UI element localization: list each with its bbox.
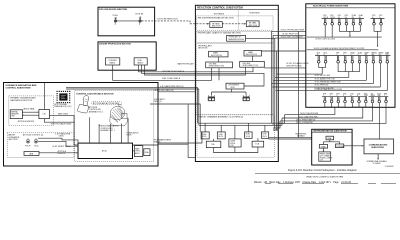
squib valve B	[135, 14, 144, 25]
svg-text:RCS: RCS	[372, 15, 375, 17]
svg-text:TEMP: TEMP	[365, 52, 369, 54]
svg-text:ASSEMBLY NO. 1: ASSEMBLY NO. 1	[89, 110, 103, 113]
svg-text:28 VDC PROPELLANT TEMP: 28 VDC PROPELLANT TEMP	[281, 29, 305, 32]
svg-text:28 VDC SE'S D-C BUS: 28 VDC SE'S D-C BUS	[315, 75, 331, 77]
wire APS fuel to RCS fuel interconnect	[139, 65, 254, 72]
jet driver box 3	[245, 132, 253, 138]
wire top feed to LGC	[43, 83, 45, 110]
PGNS dashed section	[9, 96, 54, 126]
reaction control subsystem box	[195, 5, 278, 161]
svg-text:SYSTEM B: SYSTEM B	[249, 12, 260, 14]
AGS knob switch A	[23, 134, 43, 148]
instrumentation wiring	[323, 140, 364, 152]
svg-text:SCEA: SCEA	[321, 145, 327, 148]
jet driver box 1	[201, 132, 209, 139]
svg-text:RCS: RCS	[330, 15, 333, 17]
svg-text:LTS: LTS	[320, 159, 323, 161]
main shutoff valves box B	[244, 50, 261, 56]
DSKY computer icon	[54, 91, 72, 109]
wire shutoff to interconnect A	[218, 56, 252, 62]
svg-text:C-300LM4-97: C-300LM4-97	[385, 166, 394, 168]
wire IMU-LGC	[22, 108, 39, 116]
heaters box center	[229, 139, 241, 147]
figure caption	[254, 169, 400, 184]
svg-text:RCS: RCS	[324, 52, 327, 54]
ACA hand controller icon	[77, 95, 103, 113]
svg-text:28 VDC PRESS IND: 28 VDC PRESS IND	[315, 85, 330, 87]
svg-text:CMDS: CMDS	[59, 136, 65, 138]
svg-text:28 VDC INST SIG SENSOR: 28 VDC INST SIG SENSOR	[281, 37, 304, 39]
SCEA box	[319, 145, 327, 149]
svg-text:1/4: 1/4	[338, 17, 340, 19]
instrumentation subsystem box	[312, 129, 352, 165]
svg-text:RCS: RCS	[323, 15, 326, 17]
svg-text:THRUST CHAMBER ASSEMBLY CLUSTE: THRUST CHAMBER ASSEMBLY CLUSTERS (4)	[198, 115, 243, 118]
bus 28VDC CDR	[307, 37, 382, 40]
svg-text:TO MSFN: TO MSFN	[373, 163, 382, 165]
wire hardover cmds pair crossing to RCS	[66, 85, 199, 125]
TCA bus lines	[199, 123, 285, 125]
node temp pressure signals	[295, 133, 307, 137]
ATCA box	[78, 143, 133, 158]
svg-text:28 VDC PROP QTY: 28 VDC PROP QTY	[282, 34, 298, 36]
wire LGC down throttle cmds	[18, 119, 75, 126]
svg-text:MAIN: MAIN	[248, 51, 253, 54]
svg-text:PCMTEA: PCMTEA	[336, 145, 344, 148]
thruster cluster symbol B	[243, 95, 250, 101]
CB row 2 breakers	[317, 51, 389, 63]
svg-text:ROLL: ROLL	[34, 145, 39, 147]
CB row 3 breakers	[323, 92, 387, 102]
svg-text:CMDS: CMDS	[126, 135, 132, 137]
svg-text:B: B	[357, 95, 358, 97]
PCMTEA box	[336, 144, 345, 148]
svg-text:TO RCS HE PRESS VLVS: TO RCS HE PRESS VLVS	[157, 19, 179, 21]
svg-text:ASSEMBLY NO. 1: ASSEMBLY NO. 1	[101, 129, 115, 132]
LGC box	[39, 110, 50, 119]
svg-text:AND VLVS: AND VLVS	[249, 24, 258, 27]
displays box	[319, 152, 333, 162]
TTCA thrust translation controller icon	[99, 105, 140, 137]
ERA box	[326, 136, 334, 140]
APS fuel tank box	[134, 58, 147, 65]
wire ATCA to RGA	[133, 150, 135, 152]
wires RCS to EPS connectors	[246, 29, 310, 138]
svg-text:GUIDANCE NAVIGATION AND: GUIDANCE NAVIGATION AND	[6, 84, 37, 87]
wire dashed helium B feed	[222, 23, 245, 25]
svg-text:ERRORS: ERRORS	[58, 153, 66, 155]
main shutoff valves box A	[209, 51, 228, 57]
helium tank box A	[210, 22, 223, 28]
AGS wires to ATCA	[38, 133, 78, 156]
svg-text:2/4: 2/4	[345, 17, 347, 19]
explosive devices subsystem box	[98, 7, 155, 36]
control electronics section dashed box	[75, 91, 154, 162]
wire APS propellant feed 2	[142, 65, 265, 86]
crossfeed valves box	[226, 83, 244, 89]
svg-text:ANGLE DATA: ANGLE DATA	[24, 108, 36, 111]
thruster cluster symbol A	[208, 95, 215, 101]
svg-text:3/4: 3/4	[352, 17, 354, 19]
svg-text:SECTION: SECTION	[198, 48, 208, 50]
ascent propulsion section box	[98, 42, 156, 70]
svg-text:SECTION: SECTION	[8, 139, 18, 141]
svg-text:MAIN: MAIN	[213, 52, 218, 55]
squib valve A	[113, 14, 119, 25]
svg-text:RCS: RCS	[317, 52, 320, 54]
svg-text:2: 2	[384, 95, 385, 97]
RGA label box	[134, 146, 142, 157]
RGA box	[144, 149, 150, 156]
CB row 1 breakers	[323, 14, 382, 25]
wire direct cmds to RCS	[150, 99, 200, 132]
wire EPS to comm	[378, 103, 380, 139]
CB row 2 bus	[315, 55, 391, 57]
svg-text:CONTROL ELECTRONICS SECTION: CONTROL ELECTRONICS SECTION	[76, 94, 114, 96]
communications subsystem box	[364, 139, 394, 154]
svg-text:REACTION CONTROL SUBSYSTEM: REACTION CONTROL SUBSYSTEM	[307, 176, 344, 179]
svg-text:CMDS (4): CMDS (4)	[154, 101, 162, 103]
svg-text:UNIT: UNIT	[11, 116, 15, 118]
svg-text:TANKS: TANKS	[109, 61, 116, 64]
svg-text:ATTITUDE AND ATTITUDE RATE: ATTITUDE AND ATTITUDE RATE	[93, 102, 120, 105]
svg-text:EXPLOSIVE DEVICES SUBSYSTEM: EXPLOSIVE DEVICES SUBSYSTEM	[99, 9, 127, 11]
svg-text:SIGNALS: SIGNALS	[297, 135, 305, 138]
wires controllers to ATCA	[90, 117, 128, 143]
wires interconnect to crossfeed	[212, 68, 247, 96]
CB row 1 bus	[322, 18, 385, 20]
svg-text:SYS B: SYS B	[330, 17, 334, 19]
APS oxidizer tank box	[106, 58, 120, 65]
svg-text:INTERCONNECT VLVS: INTERCONNECT VLVS	[209, 66, 224, 68]
svg-text:NAVIGATION SECTION: NAVIGATION SECTION	[10, 99, 33, 102]
wire APS oxidizer to RCS oxid interconnect	[113, 65, 212, 80]
guidance navigation and control subsystem box	[4, 83, 159, 167]
svg-text:28 VDC CDR'S D-C BUS: 28 VDC CDR'S D-C BUS	[316, 38, 336, 40]
svg-text:(16): (16)	[230, 145, 234, 147]
propellant quantity gaging dashed section	[196, 32, 273, 43]
svg-text:SYS B SE: SYS B SE	[135, 14, 144, 16]
AGS knob switch B	[34, 138, 39, 147]
jet driver box 4	[261, 132, 268, 138]
propellant section dashed box	[196, 44, 273, 115]
svg-text:ELECTRICAL POWER SUBSYSTEM: ELECTRICAL POWER SUBSYSTEM	[313, 5, 348, 8]
IMU box	[10, 110, 22, 119]
svg-text:OXIDIZER TO ASC FEED A: OXIDIZER TO ASC FEED A	[162, 70, 185, 73]
svg-text:RCS: RCS	[379, 15, 382, 17]
helium pressurization dashed section	[196, 16, 273, 30]
svg-text:4: 4	[358, 54, 359, 56]
system divider dashed	[237, 11, 239, 31]
bus interconnect	[307, 47, 378, 50]
CB row 1 collector	[325, 25, 381, 46]
svg-text:ENABLE: ENABLE	[154, 141, 162, 144]
propellant quantity measuring box	[227, 35, 246, 41]
svg-text:INST: INST	[364, 93, 368, 95]
svg-text:ASSY: ASSY	[135, 152, 141, 155]
svg-text:SYS A: SYS A	[113, 14, 119, 17]
wire valve A to valve B	[117, 20, 139, 22]
wire ATCA jet drivers to RCS	[133, 105, 203, 158]
CB row 2 drops and buses	[272, 63, 388, 91]
svg-text:SYSTEM A: SYSTEM A	[214, 13, 225, 16]
svg-text:B: B	[379, 17, 380, 19]
svg-text:MAIN PROPELLANT: MAIN PROPELLANT	[178, 62, 195, 65]
svg-text:ASCENT PROPULSION SECTION: ASCENT PROPULSION SECTION	[99, 43, 131, 46]
svg-text:THROTTLE VALVE CMDS: THROTTLE VALVE CMDS	[51, 123, 73, 126]
AEA box	[24, 152, 39, 156]
svg-text:PRESS TEMP: PRESS TEMP	[320, 153, 330, 155]
svg-text:FUEL TO ASC FEED B: FUEL TO ASC FEED B	[162, 77, 181, 80]
svg-text:SENS: SENS	[371, 95, 375, 97]
wire jet on-off cmds to RCS	[154, 89, 196, 92]
svg-text:ATTITUDE CONTROL (4): ATTITUDE CONTROL (4)	[23, 134, 43, 137]
svg-text:INTERCONNECT VLVS: INTERCONNECT VLVS	[243, 65, 258, 67]
jet driver box 2	[217, 132, 225, 139]
svg-text:4-JET HARDOVER CMDS (4): 4-JET HARDOVER CMDS (4)	[160, 85, 184, 88]
TCA box B	[252, 141, 264, 147]
svg-text:ATTITUDE ERRORS: ATTITUDE ERRORS	[18, 120, 35, 123]
oxidizer interconnect valves box A	[206, 62, 233, 68]
EPS to TCA feed wires	[273, 103, 386, 130]
CB row 3 bus	[322, 96, 388, 98]
svg-text:AND VLVS: AND VLVS	[212, 25, 221, 28]
thrust chamber assembly dashed section	[196, 115, 274, 157]
svg-text:(4 JET DIRECT CMDS): (4 JET DIRECT CMDS)	[52, 146, 71, 148]
abort guidance section dashed box	[7, 133, 74, 158]
svg-text:B: B	[324, 54, 325, 56]
wire TCA outputs to instrumentation	[269, 138, 312, 139]
svg-text:ON AND OFF CMDS (16): ON AND OFF CMDS (16)	[154, 89, 174, 92]
dashed capsule label	[92, 101, 122, 105]
svg-text:Figure 2-9-8. Reaction Contro: Figure 2-9-8. Reaction Control Subsystem…	[288, 169, 357, 172]
svg-text:VLV: VLV	[379, 54, 382, 56]
svg-text:SHUTOFF VLVS: SHUTOFF VLVS	[211, 55, 222, 57]
svg-text:PITCH: PITCH	[25, 145, 31, 147]
svg-text:28 VDC PRESS/TEMP IND: 28 VDC PRESS/TEMP IND	[296, 119, 316, 121]
svg-text:CONT: CONT	[364, 95, 368, 97]
svg-text:PRESS: PRESS	[372, 52, 377, 54]
wire ED to RCS helium (dashed)	[142, 21, 209, 24]
svg-text:PROPELLANT QUANTITY GAGING SEC: PROPELLANT QUANTITY GAGING SECTION	[198, 32, 241, 35]
svg-text:SOV: SOV	[385, 54, 388, 56]
svg-text:SHUTOFF VLV IND: SHUTOFF VLV IND	[286, 66, 302, 68]
svg-text:SUBSYSTEM: SUBSYSTEM	[371, 147, 384, 149]
svg-text:4: 4	[343, 95, 344, 97]
helium tank box B	[246, 21, 259, 27]
svg-text:TRANSLATION (LGC): TRANSLATION (LGC)	[54, 105, 72, 108]
fuel interconnect valves box B	[240, 61, 265, 67]
svg-text:TANKS: TANKS	[137, 61, 144, 64]
svg-text:RATE CMDS: RATE CMDS	[58, 113, 69, 116]
TCA box A	[206, 141, 221, 147]
svg-text:SHUTOFF VLVS: SHUTOFF VLVS	[246, 54, 257, 56]
wire comm to MSFN	[366, 154, 394, 168]
wire LGC rate cmds to ATCA	[50, 113, 79, 145]
electrical power subsystem box	[306, 4, 395, 108]
svg-text:4/4: 4/4	[359, 17, 361, 19]
TCA wiring	[205, 123, 265, 152]
svg-text:28 VDC (CDR AND SE BUSES TIE): 28 VDC (CDR AND SE BUSES TIE) INTERCONNE…	[314, 47, 365, 50]
svg-text:CONTROL SUBSYSTEM: CONTROL SUBSYSTEM	[6, 87, 31, 89]
svg-text:HELIUM PRESSURIZATION SECTION: HELIUM PRESSURIZATION SECTION	[198, 16, 234, 19]
svg-text:REACTION CONTROL SUBSYSTEM: REACTION CONTROL SUBSYSTEM	[197, 5, 243, 9]
